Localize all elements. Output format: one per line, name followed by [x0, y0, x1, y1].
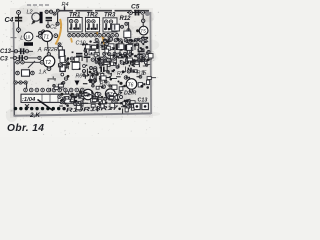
pad C3 far right: [38, 56, 41, 59]
gray blob node: [145, 11, 150, 16]
pad row under transformers: [68, 34, 119, 37]
svg-text:C4: C4: [5, 17, 14, 24]
TR1 winding bars: [70, 24, 72, 30]
bits right of T6: [138, 83, 142, 87]
transistor T4: [83, 89, 93, 99]
wire vertical at x128: [128, 22, 130, 34]
wire bundle centre cluster: [87, 56, 125, 90]
resistor R box left: [22, 70, 30, 76]
orange stain dash 3: [71, 38, 72, 43]
wire bundle right of T6: [140, 77, 156, 89]
svg-text:T5: T5: [140, 29, 146, 34]
wire row y82: [14, 82, 27, 84]
pads right of T2: [65, 60, 68, 63]
tick on left frame: [11, 37, 17, 39]
TR2 terminal dots: [87, 28, 89, 30]
wire bundle bottom extra b: [120, 99, 134, 110]
wire bundle bottom middle cluster: [58, 92, 123, 108]
pad cluster right of TR3: [121, 25, 124, 28]
TR1 pin 1: [70, 20, 73, 23]
wire T5 top: [142, 15, 144, 26]
mid pad grid row 2: [103, 52, 132, 55]
enclosure frame right edge: [149, 12, 152, 114]
inductor L2 core bar: [40, 12, 43, 23]
svg-text:C2: C2: [50, 25, 57, 31]
wire to trimmers: [120, 103, 134, 106]
pad below T6: [129, 89, 132, 92]
capacitor C4: [15, 17, 22, 19]
wire T1 to T2: [47, 42, 48, 55]
wire C5 row: [127, 12, 147, 14]
svg-text:T1: T1: [43, 35, 49, 41]
left mid small boxes: [60, 56, 65, 62]
wire C2 lower: [47, 21, 49, 24]
capacitor under C10: [76, 53, 82, 55]
long pad row y90: [24, 88, 84, 92]
inductor L10 core bar: [24, 42, 33, 46]
capacitor row y62 pads: [125, 60, 128, 63]
bottom mid pads: [61, 93, 64, 96]
pad cluster top: [53, 12, 56, 15]
pad above T5: [142, 19, 145, 22]
capacitor right mid: [138, 51, 145, 53]
diagonal wire to strip: [38, 100, 54, 111]
pad T2 bottom: [47, 67, 51, 71]
pads row y82: [14, 81, 17, 84]
trimmer box 2: [142, 103, 149, 109]
TR1 pin 2: [75, 20, 78, 23]
junction left of T5: [136, 29, 139, 32]
resistor row left: pad: [16, 71, 20, 75]
wire bundle extra5: [104, 40, 153, 61]
enclosure frame top dashed segment (left): [27, 4, 50, 6]
transformer TR3 box: [103, 18, 117, 32]
inductor L2 coil circle: [32, 13, 40, 21]
pad right of capacitor y62: [136, 60, 139, 63]
svg-text::1/04: :1/04: [22, 97, 36, 103]
wire bundle above T7 row: [96, 96, 125, 105]
wire bundle row y70: [85, 67, 115, 83]
svg-text:C5: C5: [131, 4, 140, 11]
TR2 pin 1: [87, 20, 90, 23]
capacitor C3: [19, 55, 21, 61]
orange stain arc 2: [96, 20, 98, 35]
transistor T7: [105, 89, 115, 99]
pad right of resistor: [31, 71, 35, 75]
pads left-mid scatter: [61, 73, 64, 76]
resistor box near TR3: [112, 24, 120, 31]
wire bundle bottom extra a: [68, 91, 93, 102]
wash dense zone lower: [60, 88, 150, 112]
wire bundle right middle cluster: [122, 58, 150, 80]
paper mottling: [6, 4, 161, 122]
capacitor y70: [128, 68, 130, 73]
TR1 terminal dots: [69, 27, 71, 29]
capacitor mid lower: [100, 67, 102, 72]
inductor L10 circle: [24, 32, 33, 41]
dark bars mid cluster: [106, 44, 108, 50]
capacitor C13: [20, 48, 22, 54]
enclosure frame bottom edge: [14, 113, 152, 115]
svg-text:10: 10: [25, 35, 31, 40]
wire T1 left: [36, 35, 42, 37]
svg-text:1,K: 1,K: [39, 70, 48, 76]
wire x mark diagonal: [28, 61, 35, 68]
pads right of T7: [116, 94, 119, 97]
transistor T2: [43, 56, 55, 68]
svg-text:L: L: [20, 36, 23, 42]
diode D3: [75, 81, 80, 86]
wash dense zone upper: [92, 36, 150, 68]
pad below C4: [17, 28, 21, 32]
mid pad grid row 1: [103, 38, 147, 42]
TR3 pin 1: [105, 20, 108, 23]
wire bundle extra4: [85, 71, 112, 81]
pad on T2 row 2: [21, 61, 24, 64]
TR3 winding bars: [105, 24, 107, 30]
pad T2 top: [47, 53, 50, 56]
pads under T4: [94, 99, 97, 102]
pads mid lower scatter: [91, 73, 94, 76]
svg-text:R15: R15: [137, 71, 148, 77]
svg-text:Obr. 14: Obr. 14: [7, 123, 44, 134]
capacitor y62: [130, 59, 132, 64]
trimmer box 1: [134, 103, 141, 109]
wire vertical node B: [57, 13, 59, 23]
bottom mid cluster boxes: [65, 97, 74, 104]
pad below C2: [46, 25, 49, 28]
diode D1: [97, 58, 102, 63]
pads right of L10: [39, 32, 42, 35]
resistor boxes mid row: [108, 44, 114, 50]
junction pads left of T6: [119, 82, 122, 85]
pads far right y62: [140, 60, 143, 63]
TR3 terminal dots: [104, 28, 106, 30]
transformer TR2 box: [86, 18, 100, 32]
transformer TR1 box: [68, 18, 82, 32]
pad C2 top left: [45, 10, 48, 13]
pad T1 right: [54, 34, 58, 38]
pad C13 left: [14, 50, 17, 53]
svg-text:C10: C10: [76, 41, 87, 47]
pad C13 right: [25, 50, 28, 53]
junction left of T4: [79, 90, 82, 93]
pad C3 right: [24, 56, 27, 59]
terminal strip box: [21, 94, 74, 102]
pad on T2 row 1: [16, 61, 19, 64]
capacitor C2: [46, 17, 52, 19]
TR3 pin 2: [109, 20, 112, 23]
pad below T5: [142, 37, 145, 40]
orange stain arc 1: [56, 19, 62, 45]
wire bundle left of T2 lower: [47, 76, 63, 91]
scan speckle: [2, 1, 159, 136]
wire bundle mid gap cluster: [104, 55, 128, 65]
wire bundle extra1: [95, 38, 149, 61]
wire from L2 down-left: [32, 21, 35, 25]
pad left of capacitor: [71, 57, 74, 60]
wire T2 row to left edge: [15, 61, 41, 63]
svg-text:T6: T6: [128, 82, 134, 88]
wire R4 stub: [64, 6, 66, 10]
pad above C4: [17, 11, 21, 15]
wire bundle row y60: [95, 59, 149, 69]
enclosure frame top dashed segment (right): [56, 10, 149, 12]
transistor T6: [126, 79, 137, 90]
wire C4 vertical: [18, 10, 20, 33]
svg-text:L2: L2: [27, 10, 33, 16]
enclosure frame left edge: [13, 22, 16, 116]
svg-text:T2: T2: [45, 60, 51, 66]
wire bundle extra2: [91, 57, 148, 71]
wire bundle bottom right band: [95, 99, 135, 111]
wire bundle extra3: [61, 94, 129, 114]
wire under capacitor: [78, 57, 80, 61]
resistor box below R12: [124, 31, 131, 38]
pad C5 left: [129, 11, 133, 15]
pad T2 left: [40, 61, 44, 65]
small resistor boxes mid: [89, 45, 95, 49]
resistor boxes right of T2: [59, 50, 64, 58]
svg-text:C3: C3: [0, 57, 8, 63]
pads under right capacitor: [137, 56, 140, 59]
pad T1 left: [39, 35, 43, 39]
svg-text:A: A: [37, 48, 42, 54]
wires mid cluster: [98, 41, 100, 58]
transistor T5: [139, 26, 148, 35]
orange stain dash 4: [103, 36, 105, 45]
paper background: [0, 0, 160, 137]
wire corner down: [26, 83, 28, 91]
svg-text:R12: R12: [120, 16, 132, 22]
pad node B: [56, 22, 59, 25]
pad C2 top right: [49, 10, 52, 13]
wire C3 row: [10, 57, 40, 59]
TR2 winding bars: [88, 24, 90, 30]
pad C3 left: [13, 56, 16, 59]
wire bundle left middle cluster: [58, 43, 90, 85]
pad C5 right: [141, 11, 145, 15]
wire bundle lower mid extra: [60, 96, 96, 110]
wire bundle under TR pads: [82, 40, 99, 61]
dark diamonds: [88, 78, 93, 83]
svg-text:2,K: 2,K: [29, 112, 40, 119]
wire C13 row: [11, 50, 33, 52]
TR2 pin 2: [92, 20, 95, 23]
capacitor T shape: [84, 56, 91, 58]
terminal dot row: [14, 107, 66, 110]
junction dot at L2: [32, 21, 35, 24]
left rail wire: [14, 62, 16, 115]
wire bottom bus: [60, 102, 120, 104]
transistor T1: [42, 31, 53, 42]
capacitor C5: [135, 10, 137, 16]
wire bundle cluster right of TR3: [99, 37, 148, 58]
svg-text:R6: R6: [76, 74, 83, 80]
svg-text:C13: C13: [0, 49, 12, 55]
